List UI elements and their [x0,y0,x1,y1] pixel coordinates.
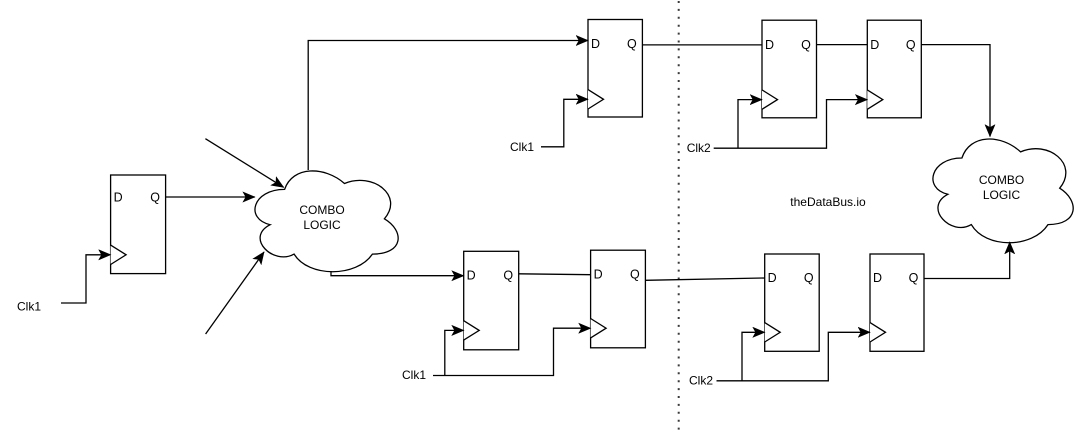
svg-text:Clk1: Clk1 [17,299,41,313]
wire Clk2 net trunk to U8 clock pin [717,332,871,381]
svg-text:COMBO: COMBO [979,173,1024,187]
flip-flop U8 (bottom synchronizer stage 2, Clk2 domain): body [870,254,924,351]
flip-flop U4 (top synchronizer stage 2, Clk2 domain): pin label D [870,38,879,52]
flip-flop U3 (top synchronizer stage 1, Clk2 domain): clock input triangle [762,90,778,109]
flip-flop U7 (bottom synchronizer stage 1, Clk2 domain): pin label D [768,271,777,285]
svg-text:Q: Q [503,268,513,282]
label: COMBO LOGIC (right cloud) [979,173,1024,202]
svg-text:LOGIC: LOGIC [303,218,341,232]
flip-flop U1 (leftmost, Clk1 domain): body [111,175,166,274]
flip-flop U2 (top middle, Clk1 domain): pin label Q [627,37,637,51]
wire U2.Q to U3.D (crosses domain boundary) [642,44,762,46]
flip-flop U3 (top synchronizer stage 1, Clk2 domain): pin label D [765,38,774,52]
net label Clk1 (at U1) [17,299,41,313]
flip-flop U2 (top middle, Clk1 domain): clock input triangle [588,90,604,109]
flip-flop U1 (leftmost, Clk1 domain): pin label D [114,190,123,204]
watermark theDataBus.io [790,195,866,209]
wire Clk1 branch to U5 clock pin [445,330,464,375]
wire U8.Q to right COMBO LOGIC cloud [924,242,1010,279]
wire Clk2 branch to U3 clock pin [738,100,762,149]
flip-flop U7 (bottom synchronizer stage 1, Clk2 domain): pin label Q [804,271,814,285]
flip-flop U8 (bottom synchronizer stage 2, Clk2 domain): pin label D [873,271,882,285]
combinational logic cloud (Clk1 domain) [255,171,398,272]
wire U6.Q to U7.D (crosses domain boundary) [645,278,764,280]
flip-flop U8 (bottom synchronizer stage 2, Clk2 domain): pin label Q [909,271,919,285]
flip-flop U2 (top middle, Clk1 domain): body [588,20,642,118]
flip-flop U3 (top synchronizer stage 1, Clk2 domain): body [762,20,817,118]
flip-flop U6 (bottom middle stage 2, Clk1 domain): body [591,250,646,348]
flip-flop U5 (bottom middle stage 1, Clk1 domain): pin label D [467,268,476,282]
net label Clk2 (bottom) [689,374,713,388]
wire Clk1 net trunk to U6 clock pin [433,328,591,375]
svg-text:D: D [765,38,774,52]
flip-flop U1 (leftmost, Clk1 domain): clock input triangle [111,245,127,264]
svg-text:Clk1: Clk1 [510,140,534,154]
flip-flop U5 (bottom middle stage 1, Clk1 domain): clock input triangle [464,321,480,340]
svg-text:Q: Q [627,37,637,51]
flip-flop U4 (top synchronizer stage 2, Clk2 domain): clock input triangle [867,90,883,109]
flip-flop U7 (bottom synchronizer stage 1, Clk2 domain): body [765,254,820,351]
svg-text:theDataBus.io: theDataBus.io [790,195,866,209]
svg-text:D: D [594,267,603,281]
wire U3.Q to U4.D [817,44,868,46]
wire other input (upper diagonal) into left cloud [205,139,283,188]
flip-flop U8 (bottom synchronizer stage 2, Clk2 domain): clock input triangle [870,323,886,342]
svg-text:D: D [873,271,882,285]
svg-text:Q: Q [906,38,916,52]
svg-text:Q: Q [630,267,640,281]
svg-text:LOGIC: LOGIC [983,188,1021,202]
svg-text:D: D [870,38,879,52]
wire Clk1 net to U1 clock pin [61,255,111,303]
wire left cloud output to U5.D [331,271,464,276]
flip-flop U3 (top synchronizer stage 1, Clk2 domain): pin label Q [801,38,811,52]
flip-flop U6 (bottom middle stage 2, Clk1 domain): pin label D [594,267,603,281]
svg-text:D: D [114,190,123,204]
svg-text:Q: Q [150,190,160,204]
wire Clk2 net trunk to U4 clock pin [714,100,868,149]
svg-text:Q: Q [804,271,814,285]
svg-text:Q: Q [909,271,919,285]
flip-flop U4 (top synchronizer stage 2, Clk2 domain): body [867,20,921,118]
svg-text:D: D [591,37,600,51]
svg-text:Clk2: Clk2 [687,141,711,155]
wire U1.Q to left COMBO LOGIC cloud [166,196,255,198]
flip-flop U5 (bottom middle stage 1, Clk1 domain): pin label Q [503,268,513,282]
wire left cloud output to U2.D [308,41,588,171]
flip-flop U1 (leftmost, Clk1 domain): pin label Q [150,190,160,204]
combinational logic cloud (Clk2 domain) [933,139,1073,243]
net label Clk2 (top) [687,141,711,155]
svg-text:Q: Q [801,38,811,52]
svg-text:Clk2: Clk2 [689,374,713,388]
svg-text:COMBO: COMBO [299,203,344,217]
wire U5.Q to U6.D [519,273,591,276]
flip-flop U2 (top middle, Clk1 domain): pin label D [591,37,600,51]
svg-text:D: D [467,268,476,282]
flip-flop U5 (bottom middle stage 1, Clk1 domain): body [464,251,519,349]
flip-flop U7 (bottom synchronizer stage 1, Clk2 domain): clock input triangle [765,323,781,342]
clock domain boundary (vertical dotted line) [678,1,680,434]
wire other input (lower diagonal) into left cloud [206,252,264,334]
wire Clk2 branch to U7 clock pin [742,332,765,381]
flip-flop U6 (bottom middle stage 2, Clk1 domain): clock input triangle [591,319,607,338]
svg-text:D: D [768,271,777,285]
wire U4.Q to right COMBO LOGIC cloud [921,45,990,137]
wire Clk1 net to U2 clock pin [541,99,588,147]
flip-flop U6 (bottom middle stage 2, Clk1 domain): pin label Q [630,267,640,281]
label: COMBO LOGIC (left cloud) [299,203,344,232]
net label Clk1 (at U2) [510,140,534,154]
flip-flop U4 (top synchronizer stage 2, Clk2 domain): pin label Q [906,38,916,52]
net label Clk1 (bottom) [402,368,426,382]
svg-text:Clk1: Clk1 [402,368,426,382]
